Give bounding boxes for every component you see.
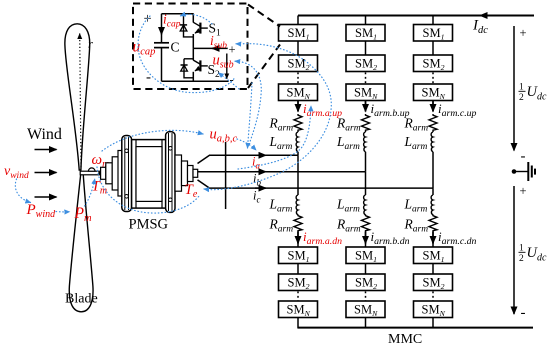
wire mid rail output with i_sub arrow xyxy=(193,47,227,49)
wire dotted SM2-SMN upper a xyxy=(297,73,299,84)
wire bottom rail xyxy=(162,80,229,82)
resistor R_arm upper c xyxy=(429,114,437,131)
wire phase node to lower L_arm c xyxy=(432,188,434,195)
wire phase node to lower L_arm a xyxy=(297,155,299,195)
arrow i_arm.b.up on wire below SMN xyxy=(365,101,367,112)
svg-text:Larm: Larm xyxy=(269,197,293,215)
wire L_arm to phase node c xyxy=(432,152,434,188)
svg-text:Te: Te xyxy=(185,182,198,200)
signal curve i_a area up to i_arm.a.up xyxy=(238,106,311,169)
voltage arrow u_sub xyxy=(226,54,228,79)
arrow i_arm.a.up on wire below SMN xyxy=(297,101,299,112)
submodule SMN lower arm b xyxy=(346,301,385,318)
callout dashed line lower xyxy=(248,45,280,89)
submodule SM2 upper arm c xyxy=(414,55,453,72)
diode D1 xyxy=(180,25,187,31)
submodule SMN upper arm c xyxy=(414,84,453,101)
svg-text:PMSG: PMSG xyxy=(129,217,169,233)
arrow i_arm.a.dn on wire above SM1 lower xyxy=(297,232,299,244)
node DC midpoint junction dot xyxy=(512,169,517,174)
svg-text:iarm.c.up: iarm.c.up xyxy=(438,101,477,119)
signal curve S1 gate to i_cap xyxy=(181,14,213,24)
ground xyxy=(514,162,535,181)
wire SMN lower to bottom bus a xyxy=(297,318,299,329)
wire dotted SM2-SMN lower c xyxy=(432,292,434,301)
resistor R_arm upper b xyxy=(362,114,370,131)
signal curve P_m to T_m xyxy=(85,179,95,206)
resistor R_arm lower b xyxy=(362,215,370,232)
shaft xyxy=(80,171,100,175)
svg-text:ucap: ucap xyxy=(133,39,156,58)
capacitor C upper wire with i_cap arrow xyxy=(161,14,163,35)
wire SMN lower to bottom bus b xyxy=(365,318,367,329)
wire leg a top bus to SM1 xyxy=(297,16,299,26)
right step 2 xyxy=(182,161,188,186)
svg-text:Idc: Idc xyxy=(472,18,488,37)
blade upper xyxy=(65,24,90,170)
arrow current i_c xyxy=(255,187,266,189)
diode D2 branch wire xyxy=(184,59,193,78)
svg-text:Larm: Larm xyxy=(336,134,360,152)
wire L_arm to phase node a xyxy=(297,152,299,156)
submodule SM2 lower arm b xyxy=(346,274,385,291)
submodule SMN upper arm a xyxy=(279,84,318,101)
callout dashed line upper xyxy=(248,5,280,27)
arrow wind 3 xyxy=(35,196,57,198)
bolt circle bottom-left xyxy=(125,195,129,199)
svg-text:Larm: Larm xyxy=(269,134,293,152)
inductor L_arm lower c xyxy=(431,195,433,215)
svg-text:ib: ib xyxy=(253,172,261,188)
wire dotted SM2-SMN lower a xyxy=(297,292,299,301)
wire SMN lower to bottom bus c xyxy=(432,318,434,329)
submodule SMN lower arm c xyxy=(414,301,453,318)
current arrow I_dc on top bus xyxy=(480,15,490,17)
resistor R_arm upper a xyxy=(294,114,302,131)
label 1/2 Udc upper xyxy=(519,83,547,103)
inductor L_arm upper b xyxy=(365,131,367,132)
svg-text:Larm: Larm xyxy=(336,197,360,215)
svg-text:Rarm: Rarm xyxy=(404,217,429,235)
svg-text:Rarm: Rarm xyxy=(404,116,429,134)
submodule SMN lower arm a xyxy=(279,301,318,318)
svg-text:Wind: Wind xyxy=(27,126,62,143)
blade lower xyxy=(69,173,93,312)
wire phase b xyxy=(197,171,366,173)
voltage arrow upper 1/2 Udc xyxy=(513,26,515,151)
submodule SM1 lower arm c xyxy=(414,247,453,264)
signal ellipse loop inside inset xyxy=(138,16,234,93)
signal curve loop i_sub from SM area to Te xyxy=(208,44,331,190)
submodule SMN upper arm b xyxy=(346,84,385,101)
svg-text:+: + xyxy=(520,184,527,198)
arrow i_arm.c.up on wire below SMN xyxy=(432,101,434,112)
radius r dotted line with arrow xyxy=(80,34,81,168)
transistor S1 IGBT xyxy=(193,14,208,49)
voltage arrow lower 1/2 Udc xyxy=(513,186,515,314)
wire phase c xyxy=(209,187,433,189)
arrow i_arm.b.dn on wire above SM1 lower xyxy=(365,232,367,244)
signal curve u_abc to phase a point xyxy=(237,139,256,150)
wire leg c top bus to SM1 xyxy=(432,16,434,26)
svg-text:Larm: Larm xyxy=(404,134,428,152)
wire bottom DC bus xyxy=(298,327,533,329)
stator rib right xyxy=(161,140,163,209)
svg-text:C: C xyxy=(171,40,180,55)
svg-text:Larm: Larm xyxy=(404,197,428,215)
inset dashed frame xyxy=(133,4,248,90)
arrow current i_a xyxy=(255,154,266,156)
submodule SM2 lower arm a xyxy=(279,274,318,291)
inductor L_arm upper c xyxy=(432,131,434,132)
submodule SM1 upper arm a xyxy=(279,25,318,42)
wire SM1-SM2 upper c xyxy=(432,41,434,55)
wire top DC bus xyxy=(298,15,534,17)
label 1/2 Udc lower xyxy=(519,244,547,264)
svg-text:2: 2 xyxy=(519,254,524,264)
right step 3 xyxy=(188,166,194,182)
resistor R_arm lower c xyxy=(429,215,437,232)
svg-text:iarm.b.dn: iarm.b.dn xyxy=(371,229,410,247)
submodule SM2 upper arm a xyxy=(279,55,318,72)
right shaft stub xyxy=(193,169,198,177)
submodule SM2 upper arm b xyxy=(346,55,385,72)
svg-text:-: - xyxy=(521,149,526,165)
signal curve omega_m to u_abc xyxy=(102,130,203,151)
resistor R_arm lower a xyxy=(294,215,302,232)
signal curve inset to phase a point xyxy=(248,83,253,148)
svg-text:Udc: Udc xyxy=(527,84,547,103)
inductor L_arm lower b xyxy=(364,195,366,215)
bolt circle top-right xyxy=(169,147,173,151)
arrow wind 1 xyxy=(35,149,57,151)
signal curve loop u_sub from lower right xyxy=(239,62,261,147)
stator rib left xyxy=(135,140,137,209)
svg-text:Rarm: Rarm xyxy=(269,217,294,235)
right step 1 xyxy=(175,155,182,191)
coupling step 2 xyxy=(106,163,112,184)
wire SM1-SM2 upper a xyxy=(297,41,299,55)
wire phase a xyxy=(209,154,298,156)
node measurement bar u_abc xyxy=(225,142,227,209)
arrow current i_b xyxy=(255,171,266,173)
wire top rail xyxy=(162,13,194,15)
svg-text:iarm.c.dn: iarm.c.dn xyxy=(438,229,477,247)
stator body xyxy=(132,140,167,209)
bolt circle top-left xyxy=(125,149,129,153)
wire SM1-SM2 lower b xyxy=(365,264,367,275)
svg-text:r: r xyxy=(88,37,93,51)
wire SM1-SM2 upper b xyxy=(365,41,367,55)
capacitor C plates xyxy=(154,42,169,44)
svg-text:Rarm: Rarm xyxy=(336,217,361,235)
coupling step 3 xyxy=(112,157,120,190)
wire leg b top bus to SM1 xyxy=(365,16,367,26)
signal arrowhead at T_e xyxy=(204,188,208,191)
svg-text:ua,b,c: ua,b,c xyxy=(210,127,238,145)
wire SM1-SM2 lower a xyxy=(297,264,299,275)
svg-text:Rarm: Rarm xyxy=(269,116,294,134)
wire dotted SM2-SMN lower b xyxy=(365,292,367,301)
coupling step 4 xyxy=(118,151,123,197)
capacitor C lower wire xyxy=(161,48,163,82)
svg-text:Blade: Blade xyxy=(65,292,98,307)
svg-text:Pm: Pm xyxy=(74,205,92,224)
svg-text:ia: ia xyxy=(252,155,260,171)
stator core rect xyxy=(136,147,162,202)
submodule SM1 upper arm b xyxy=(346,25,385,42)
wire dotted SM2-SMN upper b xyxy=(365,73,367,84)
arrow i_arm.c.dn on wire above SM1 lower xyxy=(432,232,434,244)
inductor L_arm upper a xyxy=(297,131,299,132)
left end flange xyxy=(122,136,132,212)
wire L_arm to phase node b xyxy=(365,152,367,172)
coupling step 1 xyxy=(101,167,106,179)
signal curve to S2 xyxy=(219,73,240,89)
signal arrow P_wind to P_m xyxy=(56,211,70,213)
wire phase node to lower L_arm b xyxy=(365,172,367,195)
diode D1 branch wire xyxy=(184,14,194,37)
svg-text:2: 2 xyxy=(519,93,524,103)
signal curve v_wind to P_wind xyxy=(15,179,30,203)
diode D2 xyxy=(181,65,188,71)
wire fan-out slant phase a xyxy=(198,155,210,163)
submodule SM1 lower arm a xyxy=(279,247,318,264)
inductor L_arm lower a xyxy=(296,195,298,215)
svg-text:Rarm: Rarm xyxy=(336,116,361,134)
shaft dome xyxy=(88,168,95,171)
submodule SM2 lower arm c xyxy=(414,274,453,291)
signal curve machine bottom loop omega to Te xyxy=(97,167,199,213)
svg-text:Tm: Tm xyxy=(92,179,108,197)
svg-text:iarm.a.dn: iarm.a.dn xyxy=(303,229,342,247)
signal arrowhead at i_sub xyxy=(236,43,240,45)
svg-text:+: + xyxy=(520,26,527,40)
svg-text:Pwind: Pwind xyxy=(26,202,57,220)
svg-text:Udc: Udc xyxy=(527,245,547,264)
submodule SM1 lower arm b xyxy=(346,247,385,264)
svg-text:ic: ic xyxy=(253,189,260,205)
bolt circle bottom-right xyxy=(169,198,173,202)
transistor S2 IGBT xyxy=(193,48,208,81)
right end flange xyxy=(166,132,175,213)
svg-text:+: + xyxy=(229,43,236,57)
svg-text:-: - xyxy=(521,305,526,321)
wire dotted SM2-SMN upper c xyxy=(432,73,434,84)
wire fan-out slant phase c xyxy=(198,180,210,188)
svg-text:MMC: MMC xyxy=(388,332,422,347)
signal arrowhead at u_sub xyxy=(235,60,239,62)
wire SM1-SM2 lower c xyxy=(432,264,434,275)
arrow wind 2 xyxy=(35,172,57,174)
submodule SM1 upper arm c xyxy=(414,25,453,42)
shaft junction dot xyxy=(98,172,101,175)
